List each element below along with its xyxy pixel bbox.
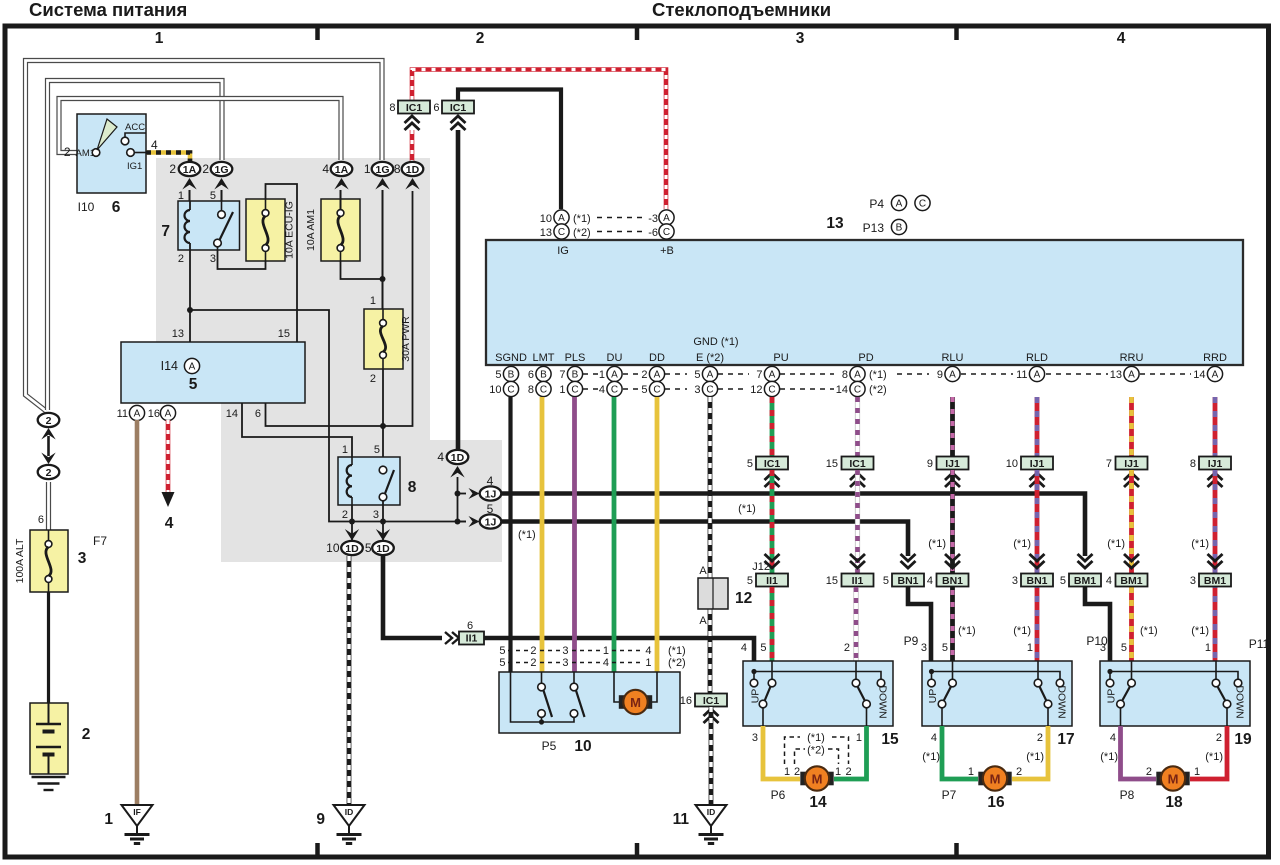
svg-text:6: 6 [528, 369, 534, 381]
svg-text:14: 14 [226, 408, 238, 420]
svg-text:4: 4 [1106, 575, 1112, 587]
svg-text:A: A [699, 565, 707, 577]
svg-text:A: A [134, 409, 141, 420]
window motor 16 (P7) [978, 772, 986, 786]
svg-text:2: 2 [342, 509, 348, 521]
svg-text:2: 2 [370, 373, 376, 385]
svg-text:14: 14 [809, 794, 827, 811]
wire yellow LMT [540, 397, 545, 672]
svg-text:P8: P8 [1120, 788, 1135, 802]
svg-text:DOWN: DOWN [1056, 685, 1068, 718]
svg-text:4: 4 [322, 162, 329, 176]
svg-text:BN1: BN1 [897, 575, 918, 587]
connector 1D pin 10 oval [345, 529, 359, 541]
wire thick black 1J pin5 to BN1 pin5 and block17 pin3 [502, 522, 931, 673]
window switch block 19 [1100, 661, 1250, 726]
svg-text:1: 1 [968, 766, 974, 778]
wire red/violet RRD [1213, 397, 1218, 457]
svg-text:E (*2): E (*2) [696, 352, 724, 364]
svg-text:4: 4 [1117, 30, 1126, 47]
svg-text:IC1: IC1 [764, 458, 781, 470]
svg-text:C: C [663, 227, 670, 238]
wire black/magenta RLU middle segment [950, 470, 955, 661]
wire black/white 1D(10) to ground ID 9 [347, 556, 352, 805]
svg-text:(*1): (*1) [869, 369, 887, 381]
block10 switch 1 [538, 683, 546, 691]
window motor 18 (P8) [1156, 772, 1164, 786]
wire black 1D(5) down and to II1 pin 6 [383, 556, 442, 638]
svg-text:DD: DD [649, 352, 665, 364]
svg-text:1: 1 [603, 645, 609, 657]
connector BN1 pin 5 [901, 554, 916, 561]
wire yellow block15 pin3 to motor 14 [763, 726, 800, 779]
svg-text:8: 8 [1190, 458, 1196, 470]
svg-text:13: 13 [172, 328, 184, 340]
svg-text:4: 4 [603, 657, 609, 669]
svg-text:A: A [769, 370, 776, 381]
connector BM1 pin 4 [1124, 554, 1139, 561]
relay 8 coil [347, 465, 352, 497]
svg-text:5: 5 [747, 458, 753, 470]
svg-text:7: 7 [756, 369, 762, 381]
wire purple PLS [572, 397, 577, 672]
svg-text:M: M [1168, 771, 1179, 786]
svg-text:2: 2 [844, 642, 850, 654]
svg-text:8: 8 [394, 162, 401, 176]
svg-text:5: 5 [499, 657, 505, 669]
wire relay7 pin1 stub [189, 190, 191, 210]
svg-text:11: 11 [1016, 369, 1027, 381]
connector 2 oval lower [38, 465, 60, 479]
svg-text:A: A [558, 213, 565, 224]
top border tick 2-3 [635, 28, 640, 40]
svg-text:A: A [854, 370, 861, 381]
svg-text:C: C [919, 199, 926, 210]
svg-text:A: A [654, 370, 661, 381]
svg-text:II1: II1 [466, 633, 478, 645]
svg-text:8: 8 [842, 369, 848, 381]
svg-text:13: 13 [1110, 369, 1122, 381]
svg-text:C: C [706, 385, 713, 396]
svg-text:(*1): (*1) [928, 538, 946, 550]
svg-text:6: 6 [467, 620, 473, 632]
svg-text:11: 11 [117, 408, 128, 420]
svg-text:B: B [896, 223, 903, 234]
svg-text:5: 5 [210, 190, 216, 202]
svg-text:3: 3 [210, 253, 216, 265]
wire black/white E connector12 to IC1 16 [708, 609, 713, 694]
svg-text:M: M [990, 771, 1001, 786]
svg-text:RLU: RLU [941, 352, 963, 364]
relay 7 coil [185, 210, 191, 243]
svg-text:5: 5 [189, 376, 198, 393]
svg-text:17: 17 [1057, 731, 1074, 748]
svg-text:IJ1: IJ1 [945, 458, 960, 470]
svg-text:19: 19 [1234, 731, 1252, 748]
wire green block15 pin1 to motor 14 [834, 726, 867, 779]
junction dot PWR/1D/pin6 [380, 423, 386, 429]
wire red block19 pin2 to motor 18 [1190, 726, 1227, 779]
svg-text:3: 3 [1190, 575, 1196, 587]
svg-text:3: 3 [562, 645, 568, 657]
svg-text:6: 6 [433, 102, 439, 114]
svg-text:1: 1 [784, 766, 790, 778]
wire yellow/black from ignition switch IG1 pin4 to connector 1A(1) [146, 153, 190, 162]
svg-text:M: M [630, 695, 641, 710]
wire red/white I14 pin16 arrow to note 4 [166, 420, 171, 492]
svg-text:5: 5 [883, 575, 889, 587]
svg-text:-3: -3 [648, 213, 658, 225]
svg-text:(*2): (*2) [668, 657, 686, 669]
svg-text:6: 6 [38, 514, 44, 526]
bottom border tick 3-4 [954, 843, 959, 855]
wire yellow DD [655, 397, 660, 672]
block10 SGND internal wire [511, 672, 575, 722]
svg-text:11: 11 [673, 811, 690, 828]
svg-text:1G: 1G [214, 164, 228, 176]
svg-text:2: 2 [1037, 732, 1043, 744]
wire brown I14 pin11 to ground IF [135, 420, 140, 805]
junction dot AM1/PWR [380, 276, 386, 282]
fuse 10A ECU-IG [246, 199, 285, 261]
fuse 100A ALT F7 block 3 [30, 530, 68, 592]
svg-text:2: 2 [794, 766, 800, 778]
svg-text:5: 5 [495, 369, 501, 381]
svg-text:A: A [663, 213, 670, 224]
svg-text:5: 5 [374, 444, 380, 456]
wire fuse ECU-IG top to I14 pin 15 [266, 184, 298, 342]
svg-text:2: 2 [46, 415, 52, 427]
power window motor+switch block 10 (P5) [499, 672, 680, 733]
svg-text:A: A [189, 362, 196, 373]
svg-text:3: 3 [562, 657, 568, 669]
relay 7 switch [218, 211, 226, 219]
svg-text:GND (*1): GND (*1) [693, 336, 738, 348]
svg-text:15: 15 [881, 731, 899, 748]
svg-text:BM1: BM1 [1120, 575, 1142, 587]
connector 2 oval upper [38, 413, 60, 427]
svg-text:5: 5 [641, 384, 647, 396]
window motor 14 (P6) [800, 772, 808, 786]
svg-text:30A PWR: 30A PWR [400, 316, 412, 362]
wire thick black 1J pin4 to BM1 pin5 and block19 pin3 [502, 494, 1110, 673]
svg-text:9: 9 [927, 458, 933, 470]
svg-text:(*1): (*1) [1140, 625, 1158, 637]
svg-text:13: 13 [540, 227, 552, 239]
wire fuse AM1 bottom to 30A PWR feed junction [341, 261, 383, 279]
svg-text:2: 2 [202, 162, 209, 176]
wire white/purple PD lower segment to block 15 pin 2 [853, 587, 858, 661]
svg-text:5: 5 [1121, 642, 1127, 654]
motor 14 variant dashed brackets [785, 737, 801, 764]
svg-text:(*1): (*1) [1026, 751, 1044, 763]
svg-text:C: C [507, 385, 514, 396]
wire purple block19 pin4 to motor 18 [1121, 726, 1157, 779]
svg-text:9: 9 [937, 369, 943, 381]
svg-text:1: 1 [1027, 642, 1033, 654]
svg-text:1: 1 [104, 811, 113, 828]
svg-text:(*2): (*2) [869, 384, 887, 396]
svg-text:1: 1 [1194, 766, 1200, 778]
svg-text:(*1): (*1) [1100, 751, 1118, 763]
svg-text:A: A [949, 370, 956, 381]
ignition switch IG1 contact [127, 149, 135, 157]
svg-text:PLS: PLS [565, 352, 586, 364]
svg-text:DOWN: DOWN [877, 685, 889, 718]
connector 1J pin 4 oval with arrow [458, 493, 467, 495]
wire I14 pin14 to relay8 coil pin1 [242, 403, 352, 457]
svg-text:PU: PU [773, 352, 788, 364]
power window master switch block 13 [486, 240, 1243, 365]
svg-text:2: 2 [178, 253, 184, 265]
connector 1J pin 5 oval with arrow [458, 521, 467, 523]
wire yellow block17 pin2 to motor 16 [1012, 726, 1048, 779]
connector BN1 pin 4 [945, 554, 960, 561]
svg-text:RRU: RRU [1120, 352, 1144, 364]
svg-text:2: 2 [1016, 766, 1022, 778]
ignition switch AM1 contact [92, 149, 100, 157]
svg-text:C: C [571, 385, 578, 396]
dashed links between pins row A [583, 373, 601, 375]
svg-text:A: A [896, 199, 903, 210]
svg-text:2: 2 [1216, 732, 1222, 744]
wire red/white +B feed from IC1 pin 8 to master switch +B [412, 70, 666, 210]
svg-text:C: C [558, 227, 565, 238]
svg-text:1G: 1G [375, 164, 389, 176]
svg-text:DU: DU [607, 352, 623, 364]
svg-text:P7: P7 [942, 788, 957, 802]
relay R1 block 7 [178, 201, 240, 250]
svg-text:100A ALT: 100A ALT [14, 538, 26, 583]
svg-text:2: 2 [476, 30, 485, 47]
wire white from connector 2G(1st 1G) loop to connector 2 [48, 81, 223, 411]
wire relay8 pin3 to 1D(5) [382, 500, 384, 541]
svg-text:2: 2 [1146, 766, 1152, 778]
svg-text:II1: II1 [852, 575, 864, 587]
svg-text:ID: ID [345, 807, 354, 817]
wire black IC1 pin6 continues down to connector 1D(4) [456, 130, 461, 449]
bottom border tick 2-3 [635, 843, 640, 855]
wire red/violet RLD middle segment [1035, 470, 1040, 661]
svg-text:10: 10 [574, 738, 591, 755]
svg-text:4: 4 [931, 732, 937, 744]
svg-text:A: A [1212, 370, 1219, 381]
svg-text:1: 1 [559, 384, 565, 396]
wire white from connector 1G(1) loop to connector 2 [26, 61, 383, 412]
svg-text:A: A [611, 370, 618, 381]
svg-text:8: 8 [408, 479, 417, 496]
wire I14 pin6 to junction / 1D(8) to junction [266, 191, 413, 426]
svg-text:I10: I10 [78, 200, 95, 214]
double arrow between connector 2 ovals [41, 428, 55, 440]
svg-text:IC1: IC1 [849, 458, 866, 470]
svg-text:C: C [611, 385, 618, 396]
svg-text:5: 5 [942, 642, 948, 654]
svg-text:ACC: ACC [125, 122, 145, 133]
wire black SGND [508, 397, 512, 672]
svg-text:(*1): (*1) [922, 751, 940, 763]
svg-text:B: B [540, 370, 547, 381]
svg-text:8: 8 [389, 102, 395, 114]
svg-text:7: 7 [559, 369, 565, 381]
fuse 30A PWR [364, 309, 403, 369]
connector BM1 pin 3 [1208, 554, 1223, 561]
wire black/white IC1 16 to ground ID 11 [709, 707, 714, 805]
wire red/yellow RRU middle segment [1129, 470, 1134, 661]
svg-text:4: 4 [165, 515, 174, 532]
top border tick 3-4 [954, 28, 959, 40]
svg-text:F7: F7 [93, 534, 107, 548]
svg-text:A: A [1034, 370, 1041, 381]
svg-text:9: 9 [316, 811, 325, 828]
svg-text:(*1): (*1) [958, 625, 976, 637]
svg-text:2: 2 [641, 369, 647, 381]
svg-text:10: 10 [489, 384, 501, 396]
svg-text:P11: P11 [1249, 637, 1270, 651]
svg-text:IC1: IC1 [450, 102, 467, 114]
wire red/violet RLD [1035, 397, 1040, 457]
wire 1D(4) down to 1J junctions [457, 477, 459, 522]
svg-text:P13: P13 [863, 221, 885, 235]
svg-text:SGND: SGND [495, 352, 527, 364]
svg-text:2: 2 [169, 162, 176, 176]
wire 30A PWR bottom to relay 8 switch [382, 369, 384, 470]
wire black/magenta RLU [950, 397, 955, 457]
svg-text:3: 3 [796, 30, 805, 47]
wire green/red PU [770, 397, 775, 457]
dashed links block10 pin rows [508, 650, 528, 652]
svg-text:13: 13 [826, 215, 844, 232]
svg-text:IF: IF [133, 807, 141, 817]
svg-text:2: 2 [530, 657, 536, 669]
svg-text:5: 5 [747, 575, 753, 587]
block10 motor M [614, 672, 620, 702]
connector 1D pin 5 oval [376, 529, 390, 541]
svg-text:5: 5 [760, 642, 766, 654]
svg-text:Система питания: Система питания [29, 0, 187, 20]
svg-text:12: 12 [750, 384, 762, 396]
svg-text:(*1): (*1) [1013, 625, 1031, 637]
svg-text:B: B [508, 370, 515, 381]
svg-text:IJ1: IJ1 [1030, 458, 1045, 470]
window switch block 15 [743, 661, 893, 726]
wire white/purple PD middle segment [855, 470, 860, 574]
svg-text:P5: P5 [542, 739, 557, 753]
window switch block 17 [922, 661, 1072, 726]
svg-text:2: 2 [530, 645, 536, 657]
fuse 10A AM1 [321, 199, 360, 261]
svg-text:5: 5 [694, 369, 700, 381]
svg-text:4: 4 [927, 575, 933, 587]
svg-text:1: 1 [370, 295, 376, 307]
svg-text:7: 7 [161, 223, 170, 240]
svg-text:ID: ID [707, 807, 716, 817]
svg-text:(*1): (*1) [668, 645, 686, 657]
wire green DU [612, 397, 617, 672]
svg-text:LMT: LMT [533, 352, 555, 364]
wire white from connector 1A(2) loop to ignition switch AM1 pin 2 [59, 99, 341, 161]
svg-text:1: 1 [364, 162, 371, 176]
wire black IG feed from IC1 pin 6 to master switch IG [458, 90, 561, 210]
svg-text:IG: IG [557, 245, 569, 257]
wire green/red PU middle segment [770, 470, 775, 574]
connector BN1 pin 3 [1030, 554, 1045, 561]
svg-text:1: 1 [835, 766, 841, 778]
svg-text:1D: 1D [376, 543, 390, 555]
wire red/yellow RRU [1129, 397, 1134, 457]
svg-text:IG1: IG1 [127, 161, 142, 172]
svg-text:IC1: IC1 [406, 102, 423, 114]
svg-text:(*2): (*2) [807, 745, 825, 757]
svg-text:(*1): (*1) [1191, 625, 1209, 637]
wire green/red PU lower segment to block 15 pin 5 [770, 587, 775, 661]
svg-text:3: 3 [78, 550, 87, 567]
svg-text:2: 2 [46, 467, 52, 479]
svg-text:5: 5 [499, 645, 505, 657]
svg-text:(*1): (*1) [1013, 538, 1031, 550]
svg-text:(*1): (*1) [518, 529, 536, 541]
svg-text:1: 1 [599, 369, 605, 381]
svg-text:4: 4 [437, 450, 444, 464]
wire relay8 pin2 to 1D(10) [351, 505, 353, 541]
connector II1 pin 6 [445, 632, 452, 644]
connector BM1 pin 5 [1078, 554, 1093, 561]
wire white/purple PD [855, 397, 860, 457]
svg-text:RRD: RRD [1203, 352, 1227, 364]
svg-text:1D: 1D [406, 164, 420, 176]
wire fuse F7 to battery [47, 592, 50, 703]
wire node13 right/down to relay8 row (to 1J pin5 line) [190, 310, 352, 522]
wire row at y521 to 1J pin 5 [352, 521, 467, 523]
svg-text:15: 15 [826, 575, 838, 587]
svg-text:A: A [165, 409, 172, 420]
bottom border tick 1-2 [315, 843, 320, 855]
svg-text:A: A [1128, 370, 1135, 381]
svg-text:3: 3 [373, 509, 379, 521]
svg-text:15: 15 [278, 328, 290, 340]
svg-text:1A: 1A [335, 164, 349, 176]
wire relay7 pin2 down to node 13 [189, 250, 191, 342]
svg-text:1D: 1D [345, 543, 359, 555]
svg-text:5: 5 [1060, 575, 1066, 587]
svg-text:IJ1: IJ1 [1124, 458, 1139, 470]
svg-text:6: 6 [255, 408, 261, 420]
wire relay7 pin3 to fuse ECU-IG bottom [218, 250, 266, 269]
svg-text:2: 2 [845, 766, 851, 778]
svg-text:14: 14 [1193, 369, 1205, 381]
svg-text:12: 12 [735, 590, 752, 607]
svg-text:1: 1 [1205, 642, 1211, 654]
svg-text:16: 16 [148, 408, 160, 420]
svg-text:C: C [540, 385, 547, 396]
svg-text:P4: P4 [869, 197, 884, 211]
svg-text:1J: 1J [485, 488, 497, 500]
svg-text:16: 16 [680, 695, 692, 707]
svg-text:IJ1: IJ1 [1208, 458, 1223, 470]
battery block 2 [30, 703, 68, 774]
ignition switch lever [97, 119, 117, 150]
svg-text:1: 1 [856, 732, 862, 744]
svg-text:BN1: BN1 [942, 575, 963, 587]
svg-text:A: A [707, 370, 714, 381]
svg-text:1A: 1A [183, 164, 197, 176]
svg-text:1D: 1D [451, 452, 465, 464]
block10 switch 2 [570, 683, 578, 691]
svg-text:C: C [854, 385, 861, 396]
svg-text:7: 7 [1106, 458, 1112, 470]
top border tick 1-2 [315, 28, 320, 40]
svg-text:IC1: IC1 [703, 695, 720, 707]
